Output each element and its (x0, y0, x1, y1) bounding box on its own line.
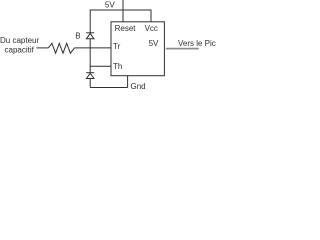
svg-text:Vcc: Vcc (145, 24, 158, 33)
label "Du capteur capacitif" (input from capacitive sensor) (0, 36, 39, 55)
wire from sensor label to resistor (36, 47, 48, 49)
svg-text:Th: Th (113, 62, 122, 71)
wire: D2 anode down to ground rail (89, 79, 91, 88)
wire: node column from D1 anode down through input wire to Th branch and D2 (89, 39, 91, 73)
wire from resistor through node B to IC Tr pin (75, 47, 112, 49)
clamp diode D1 to 5V: cathode bar (86, 32, 94, 34)
op-amp/timer IC U1 body (rectangle) (111, 22, 164, 76)
svg-text:Reset: Reset (115, 24, 137, 33)
svg-text:5V: 5V (149, 39, 159, 48)
svg-text:5V: 5V (105, 1, 115, 10)
svg-text:capacitif: capacitif (5, 46, 35, 55)
clamp diode D1 to 5V: triangle (anode below, pointing up) (86, 33, 94, 38)
svg-text:Vers le Pic: Vers le Pic (178, 39, 216, 48)
IC Gnd pin wire (vertical) (127, 76, 129, 88)
svg-text:Tr: Tr (113, 42, 121, 51)
ground wire from D2 to IC Gnd pin (90, 87, 127, 89)
svg-text:Gnd: Gnd (131, 82, 146, 91)
wire: Th branch from node column to IC Th pin (90, 65, 111, 67)
svg-text:Du capteur: Du capteur (0, 36, 39, 45)
5V supply stub crossing rail down to Reset pin (122, 0, 124, 22)
resistor R (series input resistor) (48, 43, 74, 53)
5V rail: vertical riser from node column, horizontal rail, drop to Vcc pin (90, 10, 151, 33)
svg-text:B: B (75, 32, 80, 41)
clamp diode D2 to ground: cathode bar (node side) (86, 72, 94, 74)
output wire to PIC (gray) (166, 48, 199, 50)
clamp diode D2 to ground: triangle (anode below, pointing up) (86, 73, 94, 78)
